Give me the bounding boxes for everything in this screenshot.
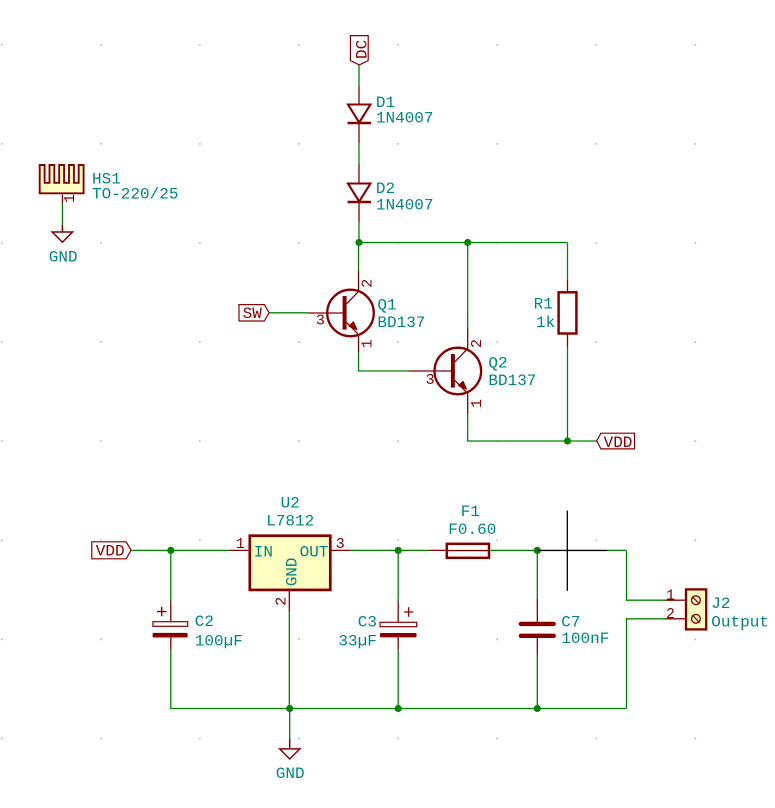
transistor Q1 <box>308 271 374 353</box>
svg-text:GND: GND <box>283 557 301 586</box>
svg-text:100nF: 100nF <box>561 630 609 648</box>
svg-text:1N4007: 1N4007 <box>376 110 434 128</box>
wire to J2 pin 2 <box>627 619 666 709</box>
svg-text:VDD: VDD <box>96 542 125 560</box>
svg-text:C2: C2 <box>195 613 214 631</box>
graphic line cross vertical <box>566 511 568 591</box>
svg-text:F1: F1 <box>461 503 480 521</box>
svg-text:IN: IN <box>254 544 273 562</box>
wire top rail <box>359 242 568 244</box>
svg-text:GND: GND <box>49 248 78 266</box>
svg-text:C3: C3 <box>358 613 377 631</box>
capacitor C3 <box>380 550 417 650</box>
wire D1 to D2 <box>358 143 360 164</box>
wire C3 to bottom rail <box>397 650 399 709</box>
svg-text:F0.60: F0.60 <box>448 521 496 539</box>
global label VDD (left) <box>92 542 131 561</box>
svg-text:33µF: 33µF <box>338 632 376 650</box>
svg-text:OUT: OUT <box>300 544 329 562</box>
svg-text:Output: Output <box>711 613 769 631</box>
svg-text:VDD: VDD <box>604 434 633 452</box>
global label DC <box>350 36 371 65</box>
wire rail to Q2 collector <box>467 243 469 329</box>
svg-text:1N4007: 1N4007 <box>376 197 434 215</box>
wire to J2 pin 1 <box>627 550 666 600</box>
wire F1 to C7/J2 <box>489 549 627 551</box>
capacitor C2 <box>153 550 188 650</box>
svg-text:2: 2 <box>666 606 675 623</box>
wire C7 to bottom rail <box>536 655 538 709</box>
capacitor C7 <box>521 550 554 655</box>
junction at C7 top <box>534 547 541 554</box>
TOP <box>40 36 635 452</box>
wire Q1 emitter to Q2 base <box>359 352 409 371</box>
svg-text:3: 3 <box>426 372 435 389</box>
graphic line cross horizontal <box>537 550 607 552</box>
svg-text:1: 1 <box>666 587 675 604</box>
svg-text:1: 1 <box>236 536 245 553</box>
svg-text:Q1: Q1 <box>377 297 396 315</box>
svg-text:GND: GND <box>276 765 305 783</box>
svg-text:2: 2 <box>469 339 486 348</box>
transistor Q2 <box>409 329 482 415</box>
wire SW to Q1 base <box>269 312 308 314</box>
svg-text:J2: J2 <box>711 595 730 613</box>
svg-text:1: 1 <box>469 399 486 408</box>
wire rail corner to R1 <box>567 243 569 281</box>
wire D2 to top rail <box>358 222 360 243</box>
global label VDD (right) <box>597 433 635 452</box>
global label SW <box>239 305 269 323</box>
junction at C7 bottom <box>534 705 541 712</box>
svg-text:BD137: BD137 <box>488 372 536 390</box>
wire U2 pin2 to bottom rail <box>288 612 290 709</box>
diode D1 <box>348 86 372 143</box>
svg-text:2: 2 <box>274 597 291 606</box>
connector J2 <box>666 589 707 629</box>
wire GND tap <box>289 709 291 740</box>
wire VDD to U2 pin 1 <box>131 549 230 551</box>
wire U2 out to F1 <box>351 549 431 551</box>
regulator U2 <box>230 536 351 612</box>
svg-text:2: 2 <box>359 279 376 288</box>
svg-text:3: 3 <box>336 536 345 553</box>
svg-text:BD137: BD137 <box>377 314 425 332</box>
svg-text:L7812: L7812 <box>266 512 314 530</box>
svg-text:R1: R1 <box>534 296 553 314</box>
junction at Q2 collector <box>464 239 471 246</box>
svg-text:Q2: Q2 <box>488 355 507 373</box>
wire C2 to bottom rail <box>171 650 627 709</box>
junction at C3 top <box>395 547 402 554</box>
power symbol GND (bottom) <box>280 739 300 759</box>
junction at GND tap <box>286 705 293 712</box>
wire Q2 emitter to VDD <box>468 414 597 441</box>
BOTTOM <box>92 495 769 783</box>
junction at C2 top <box>167 547 174 554</box>
svg-text:DC: DC <box>353 40 371 59</box>
junction at R1/VDD <box>564 437 571 444</box>
svg-text:100µF: 100µF <box>195 632 243 650</box>
heatsink HS1 <box>40 165 84 203</box>
svg-text:SW: SW <box>243 305 263 323</box>
wire R1 to VDD rail <box>567 347 569 442</box>
junction at C3 bottom <box>395 705 402 712</box>
wire HS1 to GND <box>61 203 63 225</box>
svg-text:1: 1 <box>62 194 79 203</box>
svg-text:U2: U2 <box>281 495 300 513</box>
diode D2 <box>348 164 372 222</box>
svg-text:C7: C7 <box>561 613 580 631</box>
svg-text:D2: D2 <box>376 180 395 198</box>
svg-text:1k: 1k <box>536 314 555 332</box>
fuse F1 <box>430 544 489 558</box>
power symbol GND (left) <box>52 225 72 243</box>
svg-text:3: 3 <box>316 313 325 330</box>
wire DC to D1 <box>358 65 360 86</box>
junction at D2/Q1 collector <box>355 239 362 246</box>
svg-text:1: 1 <box>359 339 376 348</box>
wire rail to Q1 collector <box>358 243 360 271</box>
resistor R1 <box>559 280 577 347</box>
svg-text:TO-220/25: TO-220/25 <box>92 185 178 203</box>
